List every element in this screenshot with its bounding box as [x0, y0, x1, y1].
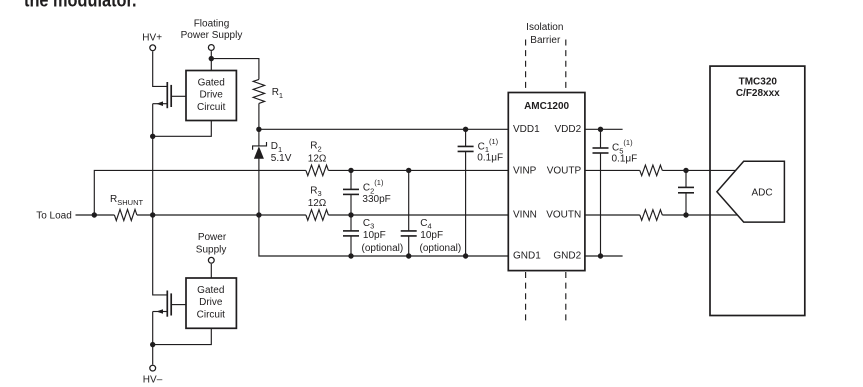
wire junction to gated drive 1 top	[210, 59, 212, 71]
svg-text:VINN: VINN	[513, 209, 537, 220]
capacitor C3	[343, 215, 359, 256]
terminal Floating Power Supply	[208, 45, 214, 51]
wire VOUTP pin to output resistor	[585, 169, 640, 171]
wire gated drive 1 bottom to node A	[153, 121, 212, 137]
wire VDD2 pin stub	[585, 128, 623, 130]
svg-text:(optional): (optional)	[362, 243, 404, 254]
wire node C to HV- terminal	[152, 345, 154, 365]
svg-text:VOUTP: VOUTP	[547, 166, 582, 177]
junction C1 top on VDD1 rail	[463, 127, 468, 132]
svg-text:To Load: To Load	[36, 211, 72, 222]
isolation barrier dashed line right	[565, 40, 567, 93]
svg-text:HV–: HV–	[143, 374, 163, 385]
svg-text:Supply: Supply	[196, 244, 227, 255]
junction C3 bottom on GND1 rail	[348, 253, 353, 258]
svg-text:VDD1: VDD1	[513, 124, 540, 135]
zener diode D1	[253, 142, 267, 159]
svg-text:Circuit: Circuit	[197, 309, 226, 320]
resistor R3	[306, 210, 329, 221]
svg-text:TMC320: TMC320	[739, 77, 778, 88]
wire To Load lead	[76, 214, 115, 216]
svg-text:Power Supply: Power Supply	[181, 30, 243, 41]
svg-text:Power: Power	[198, 232, 227, 243]
svg-text:330pF: 330pF	[362, 194, 390, 205]
junction HV chain on To-Load rail	[150, 212, 155, 217]
svg-text:Isolation: Isolation	[526, 22, 563, 33]
wire R2 to VINP pin	[328, 169, 508, 171]
isolation barrier dashed line left	[525, 40, 527, 93]
svg-text:10pF: 10pF	[363, 230, 386, 241]
svg-text:Barrier: Barrier	[530, 35, 561, 46]
svg-text:Gated: Gated	[197, 285, 224, 296]
wire HV+ to Q1 drain	[153, 51, 168, 86]
wire VOUTN pin to output resistor	[585, 214, 640, 216]
wire floating supply to junction	[210, 51, 212, 59]
svg-text:GND2: GND2	[553, 251, 581, 262]
junction C5 top on VDD2	[598, 127, 603, 132]
junction C4 branch on VINP rail	[406, 168, 411, 173]
junction C4 bottom on GND1 rail	[406, 253, 411, 258]
svg-text:Drive: Drive	[199, 297, 223, 308]
wire To-Load rail down to Q2 drain	[153, 215, 168, 295]
svg-text:Gated: Gated	[198, 77, 225, 88]
wire output P to ADC	[662, 169, 736, 171]
op-amp U1 AMC1200 box	[508, 93, 585, 271]
svg-text:VINP: VINP	[513, 166, 537, 177]
transistor Q1	[153, 82, 186, 108]
svg-text:AMC1200: AMC1200	[524, 101, 569, 112]
resistor R2	[306, 165, 329, 176]
resistor R1	[253, 79, 264, 103]
isolation barrier dashed line right lower	[565, 272, 567, 324]
U2 TMS320 box	[710, 66, 805, 315]
junction node B (R1 / D1 / VDD1 rail)	[256, 127, 261, 132]
junction C1 bottom on GND1 rail	[463, 253, 468, 258]
terminal HV-	[150, 365, 156, 371]
svg-text:R1: R1	[272, 87, 283, 100]
wire node B to D1 cathode	[258, 129, 260, 146]
capacitor C5	[593, 129, 609, 256]
junction D1 anode on To-Load rail	[256, 212, 261, 217]
wire D1 node down to GND1 rail	[259, 215, 508, 256]
svg-text:10pF: 10pF	[420, 230, 443, 241]
svg-text:0.1μF: 0.1μF	[612, 154, 638, 165]
ADC pentagon	[717, 161, 785, 222]
svg-text:RSHUNT: RSHUNT	[110, 194, 143, 207]
svg-text:5.1V: 5.1V	[271, 153, 292, 164]
junction C2/C3 on VINN rail	[348, 212, 353, 217]
svg-text:0.1μF: 0.1μF	[477, 152, 503, 163]
svg-text:ADC: ADC	[751, 187, 772, 198]
isolation barrier dashed line left lower	[525, 272, 527, 324]
terminal Power Supply	[208, 257, 214, 263]
junction node C (Q2 source / gated drive 2 return)	[150, 342, 155, 347]
wire Q2 source down to node C	[152, 312, 154, 345]
svg-text:C4: C4	[420, 218, 431, 231]
terminal HV+	[150, 45, 156, 51]
junction VINP branch on To-Load rail	[92, 212, 97, 217]
wire R1 bottom to node B	[258, 103, 260, 129]
svg-text:C/F28xxx: C/F28xxx	[736, 88, 780, 99]
svg-text:the modulator.: the modulator.	[24, 0, 137, 11]
transistor Q2	[153, 291, 186, 317]
resistor output P	[640, 165, 663, 176]
junction C5 bottom on GND2	[598, 253, 603, 258]
wire output N to ADC	[662, 214, 737, 216]
wire GND2 pin stub	[585, 255, 623, 257]
junction C2 top on VINP rail	[348, 168, 353, 173]
wire VDD1 rail node B to VDD1 pin	[259, 128, 508, 130]
svg-text:Circuit: Circuit	[197, 102, 226, 113]
svg-text:C3: C3	[363, 218, 374, 231]
wire junction to R1 top	[211, 59, 259, 80]
svg-text:VOUTN: VOUTN	[546, 209, 581, 220]
wire Q1 source down to node A	[152, 104, 154, 137]
gated drive circuit 2 box	[186, 278, 236, 328]
wire VINP rail left branch	[94, 170, 306, 215]
gated drive circuit 1 box	[186, 71, 236, 121]
resistor RSHUNT	[114, 209, 136, 220]
junction output cap top	[683, 168, 688, 173]
svg-text:R2: R2	[310, 141, 321, 154]
junction output cap bottom	[683, 212, 688, 217]
svg-text:12Ω: 12Ω	[308, 198, 327, 209]
junction node A (Q1 source / gated drive 1 return)	[150, 134, 155, 139]
capacitor C4	[401, 170, 417, 256]
svg-text:HV+: HV+	[142, 33, 162, 44]
svg-text:(optional): (optional)	[420, 243, 462, 254]
wire node A to To-Load rail	[152, 136, 154, 215]
svg-text:C2(1): C2(1)	[363, 178, 384, 195]
svg-text:Floating: Floating	[194, 19, 230, 30]
wire power supply to gated drive 2 top	[210, 264, 212, 278]
svg-text:Drive: Drive	[200, 90, 224, 101]
junction floating supply node	[209, 56, 214, 61]
wire RSHUNT right to VINN rail	[137, 214, 306, 216]
capacitor C2	[343, 170, 359, 215]
svg-text:GND1: GND1	[513, 251, 541, 262]
wire gated drive 2 bottom to node C	[153, 328, 212, 344]
svg-text:R3: R3	[310, 185, 321, 198]
capacitor output filter	[678, 170, 694, 215]
resistor output N	[640, 210, 663, 221]
svg-text:VDD2: VDD2	[555, 124, 582, 135]
capacitor C1	[458, 129, 474, 256]
svg-text:12Ω: 12Ω	[308, 153, 327, 164]
wire R3 to VINN pin	[328, 214, 508, 216]
wire D1 anode to To-Load rail	[258, 158, 260, 215]
